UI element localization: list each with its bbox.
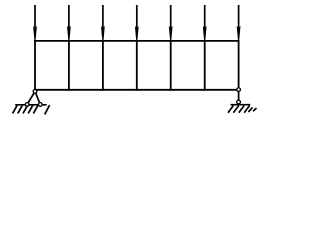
vertical member 2 <box>68 40 70 91</box>
left support base line <box>15 104 46 106</box>
load arrow 5 head <box>169 26 173 41</box>
load arrow 7 shaft <box>238 5 240 30</box>
right ground hatch 4 <box>244 106 249 113</box>
left ground hatch 5 <box>33 106 37 114</box>
load arrow 5 shaft <box>170 5 172 30</box>
load arrow 4 head <box>135 26 139 41</box>
load arrow 2 head <box>67 26 71 41</box>
left chord vertical <box>34 40 36 91</box>
left pin hinge circle <box>33 90 37 94</box>
load arrow 6 shaft <box>204 5 206 30</box>
left ground hatch 4 <box>28 106 32 114</box>
vertical member 5 <box>170 40 172 91</box>
load arrow 3 head <box>101 26 105 41</box>
right ground hatch 5 (clipped) <box>248 107 252 112</box>
right support ground line <box>231 104 251 106</box>
vertical member 6 <box>204 40 206 91</box>
load arrow 1 shaft <box>34 5 36 30</box>
top chord <box>34 40 239 42</box>
bottom chord <box>34 89 239 91</box>
left ground hatch 2 <box>18 106 22 114</box>
left ground hatch 1 <box>13 106 17 114</box>
right ground hatch 1 <box>228 106 233 113</box>
load arrow 1 head <box>33 26 37 41</box>
right link support: link bar <box>238 90 240 102</box>
left ground hatch 3 <box>23 106 27 114</box>
left base hinge circle A <box>25 103 29 107</box>
left ground hatch 6 (long) <box>45 105 50 115</box>
right chord vertical <box>238 40 240 91</box>
left pin support: triangle leg right <box>35 91 40 104</box>
right link bottom hinge circle <box>237 100 241 104</box>
load arrow 6 head <box>203 26 207 41</box>
vertical member 4 <box>136 40 138 91</box>
load arrow 4 shaft <box>136 5 138 30</box>
vertical member 3 <box>102 40 104 91</box>
right ground hatch 2 <box>233 106 238 113</box>
load arrow 7 head <box>237 26 241 41</box>
right link top hinge circle <box>237 88 241 92</box>
left pin support: triangle leg left <box>27 91 35 104</box>
right ground hatch 3 <box>239 106 244 113</box>
left base hinge circle B <box>38 103 42 107</box>
load arrow 2 shaft <box>68 5 70 30</box>
load arrow 3 shaft <box>102 5 104 30</box>
right ground hatch 6 (clipped) <box>253 108 257 111</box>
